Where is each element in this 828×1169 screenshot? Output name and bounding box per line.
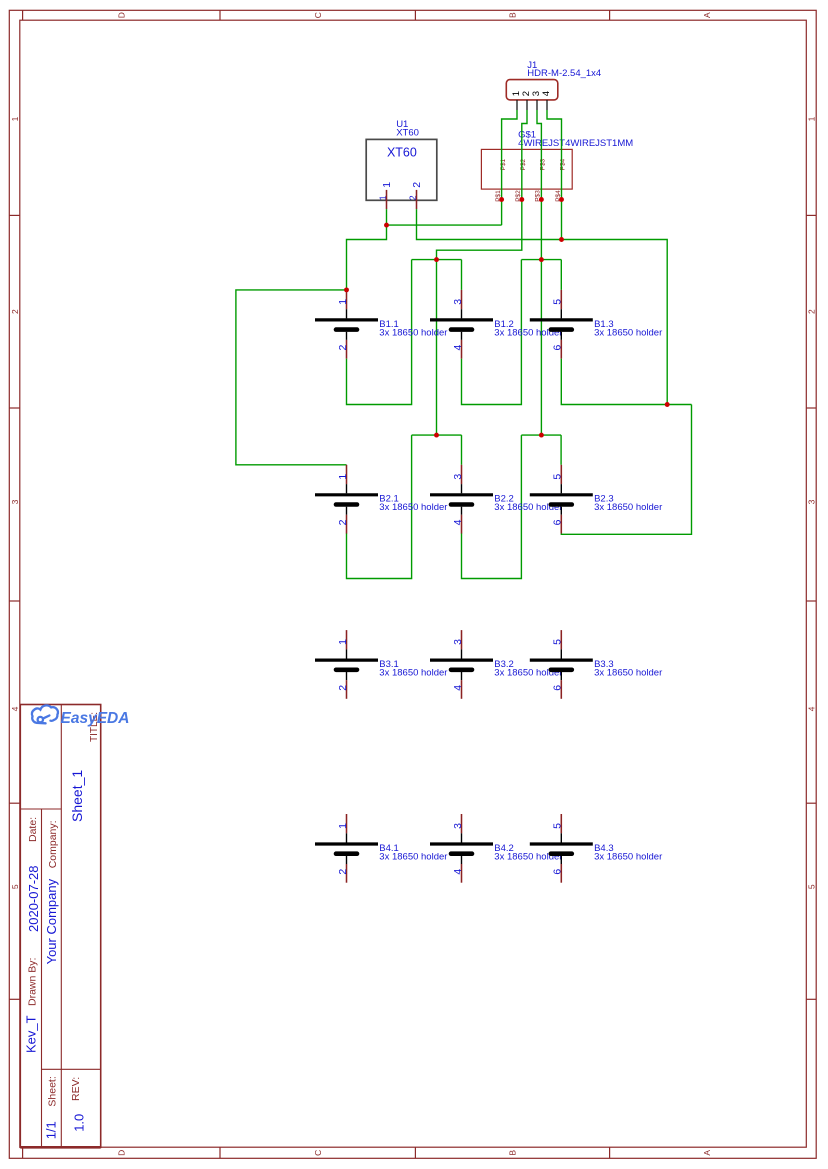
battery B3.1	[315, 630, 447, 699]
svg-text:4: 4	[806, 706, 816, 711]
junction dot 8	[539, 257, 544, 262]
svg-text:D: D	[116, 12, 126, 18]
svg-text:3x 18650 holder: 3x 18650 holder	[594, 327, 662, 338]
wire node B2 to B2.3 plus	[560, 435, 562, 465]
svg-text:2: 2	[337, 519, 349, 525]
svg-text:1/1: 1/1	[44, 1121, 59, 1139]
svg-text:5: 5	[10, 884, 20, 889]
wire XT60.1 to P$1 net	[387, 224, 502, 226]
svg-text:B: B	[508, 1150, 518, 1156]
svg-text:1: 1	[10, 116, 20, 121]
svg-text:2: 2	[337, 869, 349, 875]
wire XT60.1 to B1.1 plus	[347, 209, 387, 290]
junction dot 4	[559, 197, 564, 202]
battery B1.2	[430, 290, 562, 359]
junction dot 7	[434, 257, 439, 262]
junction dot 1	[499, 197, 504, 202]
svg-text:P$1: P$1	[500, 158, 507, 170]
svg-text:Sheet_1: Sheet_1	[69, 770, 85, 822]
wire node B1 to B1.3 plus	[560, 260, 562, 290]
svg-text:Sheet:: Sheet:	[46, 1076, 58, 1106]
battery B1.1	[315, 290, 447, 359]
wire node A2 bar	[412, 434, 462, 436]
GS1 body	[481, 149, 572, 189]
battery B2.3	[530, 465, 662, 534]
EasyEDA logo	[32, 705, 58, 723]
svg-text:3x 18650 holder: 3x 18650 holder	[594, 668, 662, 679]
svg-text:3: 3	[452, 823, 464, 829]
svg-text:5: 5	[552, 823, 564, 829]
battery B4.3	[530, 814, 662, 883]
svg-text:C: C	[313, 12, 323, 18]
battery B3.3	[530, 630, 662, 699]
battery B3.2	[430, 630, 562, 699]
title block	[20, 705, 100, 1148]
junction dot 2	[519, 197, 524, 202]
junction dot 12	[539, 433, 544, 438]
svg-text:1: 1	[337, 823, 349, 829]
svg-text:XT60: XT60	[396, 127, 419, 138]
svg-text:3: 3	[10, 499, 20, 504]
svg-text:D: D	[116, 1150, 126, 1156]
svg-text:C: C	[313, 1150, 323, 1156]
svg-text:6: 6	[552, 869, 564, 875]
junction dot 10	[665, 402, 670, 407]
svg-text:1: 1	[806, 116, 816, 121]
wire node B2 bar	[521, 434, 561, 436]
svg-text:2: 2	[411, 182, 423, 188]
wire B1.1 plus to B2.1 plus	[236, 290, 347, 465]
wire J1.2 to GS1 P$2 to node A1	[437, 110, 528, 260]
svg-text:2020-07-28: 2020-07-28	[26, 866, 41, 933]
svg-text:3: 3	[806, 499, 816, 504]
wire B1.1 minus to node A1	[347, 260, 412, 405]
svg-text:1: 1	[337, 474, 349, 480]
svg-text:2: 2	[806, 309, 816, 314]
svg-text:Company:: Company:	[47, 820, 59, 868]
svg-text:1: 1	[337, 639, 349, 645]
svg-text:3x 18650 holder: 3x 18650 holder	[379, 668, 447, 679]
svg-text:2: 2	[337, 685, 349, 691]
svg-text:3x 18650 holder: 3x 18650 holder	[379, 851, 447, 862]
battery B2.1	[315, 465, 447, 534]
XT60 body	[366, 139, 437, 200]
svg-text:5: 5	[552, 474, 564, 480]
svg-text:Drawn By:: Drawn By:	[26, 958, 38, 1006]
svg-text:3x 18650 holder: 3x 18650 holder	[379, 502, 447, 513]
wire B2.1 minus to node A2	[347, 435, 412, 578]
svg-text:REV:: REV:	[70, 1077, 82, 1101]
svg-text:4: 4	[10, 706, 20, 711]
svg-text:3: 3	[452, 639, 464, 645]
wire J1.3 to GS1 P$3 riser	[537, 110, 541, 435]
svg-text:1.0: 1.0	[72, 1114, 87, 1132]
svg-text:Kev_T: Kev_T	[24, 1015, 39, 1053]
svg-text:P$3: P$3	[540, 158, 547, 170]
junction dot 11	[434, 433, 439, 438]
junction dot 6	[559, 237, 564, 242]
svg-text:3: 3	[452, 474, 464, 480]
wire J1.4 to GS1 P$4	[547, 110, 562, 240]
svg-text:5: 5	[552, 299, 564, 305]
battery B1.3	[530, 290, 662, 359]
svg-text:HDR-M-2.54_1x4: HDR-M-2.54_1x4	[527, 68, 601, 79]
svg-text:3: 3	[452, 299, 464, 305]
wire node B1 bar	[521, 259, 561, 261]
svg-text:P$2: P$2	[520, 158, 527, 170]
svg-text:EasyEDA: EasyEDA	[61, 710, 130, 727]
wire node A2 to B2.2 plus	[461, 435, 463, 465]
svg-text:A: A	[702, 12, 712, 18]
wire node A1 to B1.2 plus	[461, 260, 463, 290]
wire right side to B2.3 minus	[561, 405, 691, 535]
junction dot 9	[344, 287, 349, 292]
svg-text:6: 6	[552, 685, 564, 691]
svg-text:4: 4	[541, 91, 552, 96]
junction dot 3	[539, 197, 544, 202]
svg-text:4: 4	[452, 519, 464, 525]
battery B2.2	[430, 465, 562, 534]
svg-text:5: 5	[552, 639, 564, 645]
svg-text:4: 4	[452, 345, 464, 351]
svg-text:P$4: P$4	[560, 158, 567, 170]
wire XT60.2 pack minus	[417, 209, 668, 404]
svg-text:6: 6	[552, 345, 564, 351]
wire J1.1 to GS1 P$1	[502, 110, 517, 225]
wire node A1 riser to A2	[436, 260, 438, 436]
connector J1 body	[506, 80, 558, 100]
svg-text:1: 1	[337, 299, 349, 305]
svg-text:Your Company: Your Company	[44, 878, 59, 964]
battery B4.2	[430, 814, 562, 883]
svg-text:Date:: Date:	[27, 817, 39, 842]
svg-text:4WIREJST4WIREJST1MM: 4WIREJST4WIREJST1MM	[518, 138, 633, 149]
junction dot 5	[384, 223, 389, 228]
svg-text:3x 18650 holder: 3x 18650 holder	[594, 502, 662, 513]
svg-text:6: 6	[552, 519, 564, 525]
svg-text:4: 4	[452, 685, 464, 691]
svg-text:4: 4	[452, 869, 464, 875]
svg-text:2: 2	[337, 345, 349, 351]
wire B1.3 minus right	[561, 359, 691, 405]
svg-text:5: 5	[806, 884, 816, 889]
wire node A1 bar	[412, 259, 462, 261]
svg-text:1: 1	[381, 182, 393, 188]
svg-text:3x 18650 holder: 3x 18650 holder	[594, 851, 662, 862]
svg-text:2: 2	[10, 309, 20, 314]
wire B2.2 minus to node B2	[462, 435, 522, 578]
battery B4.1	[315, 814, 447, 883]
wire B1.2 minus to node B1	[462, 260, 522, 405]
svg-text:3x 18650 holder: 3x 18650 holder	[379, 327, 447, 338]
svg-text:XT60: XT60	[387, 145, 417, 159]
svg-text:A: A	[702, 1150, 712, 1156]
svg-text:B: B	[508, 12, 518, 18]
